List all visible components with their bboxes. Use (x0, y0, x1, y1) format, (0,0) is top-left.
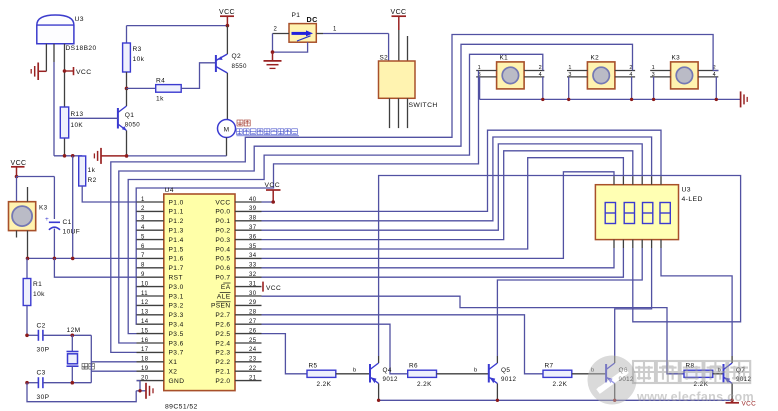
wire P0.7 to LED pin2 bottom (262, 248, 624, 277)
wire Q5 collector to LED digit2 (497, 248, 642, 356)
svg-text:P0.4: P0.4 (215, 246, 230, 253)
svg-text:13: 13 (141, 310, 149, 316)
wire motor to Q1 emitter rail (125, 154, 227, 158)
svg-text:P3.7: P3.7 (169, 350, 184, 357)
svg-text:36: 36 (249, 234, 257, 240)
svg-text:1: 1 (568, 65, 571, 71)
svg-text:VCC: VCC (265, 182, 281, 189)
wire VCC top rail (127, 26, 228, 43)
svg-text:35: 35 (249, 244, 257, 250)
svg-text:31: 31 (249, 281, 257, 287)
chip pins right 40-21 (211, 197, 262, 385)
wire net K3 to P3.7 (111, 35, 719, 353)
svg-text:P2.5: P2.5 (215, 331, 230, 338)
switch S2 (379, 55, 438, 110)
ground P1 (264, 52, 282, 68)
wire Q7 collector to LED digit4 (661, 248, 732, 356)
svg-text:P1.2: P1.2 (169, 218, 184, 225)
svg-text:C3: C3 (37, 370, 46, 377)
svg-text:P3.4: P3.4 (169, 322, 184, 329)
resistor R2 (79, 156, 137, 202)
svg-text:1: 1 (652, 65, 655, 71)
svg-text:40: 40 (249, 197, 257, 203)
label fan chinese (237, 120, 250, 126)
label crystal chinese (82, 364, 94, 370)
svg-text:R7: R7 (545, 363, 554, 370)
svg-text:18: 18 (141, 357, 149, 363)
svg-text:29: 29 (249, 300, 257, 306)
svg-text:2.2K: 2.2K (317, 381, 332, 388)
wire sensor data leg (53, 44, 55, 156)
svg-text:P0.0: P0.0 (215, 209, 230, 216)
svg-text:1: 1 (333, 27, 337, 33)
watermark text (633, 361, 754, 404)
wire button ground rail (480, 98, 741, 101)
svg-text:1k: 1k (156, 96, 164, 103)
wire crystal to X1 X2 (91, 335, 136, 382)
svg-text:www.elecfans.com: www.elecfans.com (636, 390, 754, 404)
power VCC S2 (391, 9, 407, 61)
svg-text:Q1: Q1 (125, 112, 135, 119)
display U3 4-LED (595, 185, 702, 240)
svg-text:X1: X1 (169, 359, 178, 366)
capacitor C2 30P (25, 323, 91, 354)
svg-text:DC: DC (307, 15, 318, 24)
svg-text:GND: GND (169, 378, 185, 385)
svg-text:8050: 8050 (125, 122, 141, 129)
wire S2 pin3 stub top (407, 36, 409, 61)
svg-text:2.2K: 2.2K (553, 381, 568, 388)
resistor R5 (307, 363, 370, 389)
svg-text:89C51/52: 89C51/52 (165, 404, 198, 411)
svg-text:15: 15 (141, 328, 149, 334)
svg-text:P3.5: P3.5 (169, 331, 184, 338)
capacitor C3 30P (25, 370, 91, 402)
svg-text:16: 16 (141, 338, 149, 344)
ground buttons right (741, 91, 748, 107)
wire K3 gnd loop (654, 77, 717, 100)
svg-text:10UF: 10UF (63, 229, 81, 236)
chip pins left 1-20 (137, 197, 185, 385)
transistor Q2 8550 (216, 26, 247, 120)
wire emitter VCC rail (377, 399, 734, 402)
svg-text:7: 7 (141, 253, 145, 259)
svg-text:SWITCH: SWITCH (409, 102, 438, 109)
wire sensor VCC leg (64, 44, 66, 107)
watermark logo (588, 356, 637, 405)
svg-text:K2: K2 (591, 55, 600, 62)
wire net K1 to P3.5 (128, 54, 543, 333)
svg-text:4: 4 (713, 72, 716, 78)
svg-text:38: 38 (249, 216, 257, 222)
svg-text:P2.4: P2.4 (215, 340, 230, 347)
wire C1 to RST pin9 (54, 258, 136, 277)
svg-text:P3.2: P3.2 (169, 303, 184, 310)
svg-text:12M: 12M (67, 327, 81, 334)
wire P1 pin2 to ground (271, 27, 308, 54)
svg-text:P3.1: P3.1 (169, 293, 184, 300)
svg-text:U3: U3 (75, 16, 85, 23)
svg-text:24: 24 (249, 347, 257, 353)
sensor U3 DS18B20 (37, 15, 97, 52)
svg-text:b: b (353, 368, 357, 374)
svg-text:P0.7: P0.7 (215, 275, 230, 282)
svg-text:P1.0: P1.0 (169, 199, 184, 206)
resistor R1 (23, 258, 45, 335)
wire P0.6 to LED pin1 bottom (262, 248, 615, 268)
button K3 (650, 55, 718, 89)
wire P0.0 to LED (262, 130, 662, 211)
svg-text:P2.1: P2.1 (215, 369, 230, 376)
svg-text:P3.0: P3.0 (169, 284, 184, 291)
svg-text:19: 19 (141, 366, 149, 372)
svg-text:11: 11 (141, 291, 148, 297)
svg-text:4: 4 (539, 72, 542, 78)
svg-text:4: 4 (141, 225, 145, 231)
svg-text:1: 1 (478, 65, 481, 71)
wire P0.1 to LED (262, 137, 652, 221)
svg-text:K3: K3 (39, 205, 48, 212)
transistor Q7 9012 (724, 356, 752, 400)
ground sensor (31, 63, 38, 81)
wire net K1 pin1 to P3.4 (136, 71, 478, 325)
ground Q1 emitter (94, 148, 126, 164)
wire P0.4 to LED (262, 158, 624, 249)
svg-text:C2: C2 (37, 323, 46, 330)
svg-text:R13: R13 (71, 111, 84, 118)
svg-text:P2.6: P2.6 (215, 322, 230, 329)
wire P0.3 to LED (262, 151, 633, 240)
svg-text:b: b (474, 368, 478, 374)
transistor Q5 9012 (489, 356, 517, 400)
wire P0.2 to LED (262, 144, 643, 230)
crystal 12M (67, 327, 81, 383)
svg-text:26: 26 (249, 328, 257, 334)
wire S2 bottom stubs (390, 98, 408, 128)
svg-text:P3.6: P3.6 (169, 340, 184, 347)
svg-text:Q4: Q4 (383, 367, 392, 374)
wire Q6 collector to LED digit3 (615, 248, 652, 356)
led pin stubs (614, 176, 661, 248)
svg-text:1k: 1k (88, 167, 96, 174)
resistor R13 (60, 107, 83, 156)
svg-text:30P: 30P (37, 394, 50, 401)
button K3 left (9, 187, 48, 258)
wire bottom left rail (27, 383, 136, 402)
svg-text:33: 33 (249, 263, 257, 269)
svg-text:U4: U4 (165, 187, 175, 194)
svg-text:10k: 10k (133, 56, 145, 63)
button K1 (476, 55, 544, 89)
svg-text:10k: 10k (33, 291, 45, 298)
svg-text:10K: 10K (71, 122, 84, 129)
svg-text:5: 5 (141, 234, 145, 240)
wire P2.7 to R6 (262, 324, 408, 374)
svg-text:PSEN: PSEN (211, 303, 231, 310)
svg-text:P2.2: P2.2 (215, 359, 230, 366)
svg-text:30P: 30P (37, 347, 50, 354)
svg-text:39: 39 (249, 206, 257, 212)
svg-text:17: 17 (141, 347, 149, 353)
transistor Q4 9012 (370, 356, 398, 400)
svg-text:P3.3: P3.3 (169, 312, 184, 319)
connector P1 DC (289, 12, 318, 42)
resistor R7 (543, 363, 606, 389)
resistor R6 (408, 363, 489, 389)
wire VCC to C1 and button (17, 177, 55, 220)
svg-text:R4: R4 (156, 78, 165, 85)
motor M fan (218, 120, 236, 156)
power VCC bottom right (726, 400, 757, 407)
power VCC pin40 (262, 182, 281, 204)
svg-text:P1.6: P1.6 (169, 256, 184, 263)
svg-text:P0.3: P0.3 (215, 237, 230, 244)
svg-text:21: 21 (249, 375, 257, 381)
svg-text:R5: R5 (309, 363, 318, 370)
svg-text:VCC: VCC (391, 9, 407, 16)
svg-text:X2: X2 (169, 369, 178, 376)
svg-text:R1: R1 (33, 281, 42, 288)
svg-text:22: 22 (249, 366, 257, 372)
svg-text:R3: R3 (133, 46, 142, 53)
svg-text:8550: 8550 (232, 63, 248, 70)
node R3-R4-Q1 (125, 87, 129, 91)
svg-text:25: 25 (249, 338, 257, 344)
svg-text:P0.2: P0.2 (215, 228, 230, 235)
svg-text:VCC: VCC (76, 69, 92, 76)
svg-text:3: 3 (141, 216, 145, 222)
svg-text:S2: S2 (380, 55, 389, 62)
power VCC pin31 EA (263, 282, 281, 292)
svg-text:R6: R6 (409, 363, 418, 370)
wire sensor data junction rail (54, 154, 82, 158)
svg-text:P2.7: P2.7 (215, 312, 230, 319)
resistor R8 (684, 363, 724, 389)
svg-text:P2.0: P2.0 (215, 378, 230, 385)
power VCC sensor (63, 67, 92, 76)
svg-text:12: 12 (141, 300, 149, 306)
svg-text:10: 10 (141, 281, 149, 287)
svg-text:9012: 9012 (501, 376, 517, 383)
transistor Q6 9012 (606, 356, 634, 400)
svg-text:P0.6: P0.6 (215, 265, 230, 272)
power VCC top center (219, 9, 235, 27)
svg-text:P1: P1 (292, 12, 301, 19)
svg-text:R2: R2 (88, 177, 97, 184)
svg-text:9: 9 (141, 272, 145, 278)
svg-text:37: 37 (249, 225, 257, 231)
svg-text:Q5: Q5 (501, 367, 510, 374)
ground chip GND (146, 383, 153, 399)
svg-text:P0.5: P0.5 (215, 256, 230, 263)
wire GND pin20 to ground (136, 381, 146, 393)
wire K1 gnd loop (480, 77, 543, 100)
svg-text:32: 32 (249, 272, 257, 278)
svg-text:Q2: Q2 (232, 53, 242, 60)
svg-text:U3: U3 (682, 187, 692, 194)
mcu U4 89C51/52 (164, 187, 235, 411)
power VCC left (11, 160, 27, 178)
wire P1 pin1 to S2 (316, 27, 388, 62)
wire data to P1.6 (72, 156, 74, 259)
svg-text:+: + (45, 216, 49, 223)
capacitor C1 10uF (45, 216, 80, 258)
svg-text:P1.1: P1.1 (169, 209, 184, 216)
svg-text:M: M (224, 126, 230, 133)
wire K2 gnd loop (569, 77, 632, 100)
svg-text:EA: EA (221, 284, 231, 291)
label fan polarity chinese (237, 129, 300, 136)
svg-text:27: 27 (249, 319, 257, 325)
svg-text:VCC: VCC (219, 9, 235, 16)
svg-text:28: 28 (249, 310, 257, 316)
svg-text:20: 20 (141, 375, 149, 381)
svg-text:6: 6 (141, 244, 145, 250)
svg-text:9012: 9012 (383, 376, 399, 383)
wire sensor leg1 to ground (38, 44, 46, 72)
svg-text:2: 2 (539, 65, 542, 71)
svg-text:14: 14 (141, 319, 149, 325)
svg-text:2: 2 (141, 206, 145, 212)
wire net K2 to P3.6 (119, 44, 633, 343)
svg-text:ALE: ALE (217, 293, 231, 300)
svg-text:P0.1: P0.1 (215, 218, 230, 225)
svg-text:P1.7: P1.7 (169, 265, 184, 272)
svg-text:P1.3: P1.3 (169, 228, 184, 235)
button K2 (567, 55, 635, 89)
resistor R4 (127, 63, 216, 103)
svg-text:P1.5: P1.5 (169, 246, 184, 253)
svg-text:2.2K: 2.2K (417, 381, 432, 388)
svg-text:C1: C1 (63, 219, 72, 226)
svg-text:VCC: VCC (266, 285, 281, 292)
svg-text:23: 23 (249, 357, 257, 363)
wire Q4 collector to LED digit1 (379, 176, 741, 357)
svg-text:30: 30 (249, 291, 257, 297)
transistor Q1 8050 (69, 88, 140, 155)
svg-text:2: 2 (274, 27, 278, 33)
wire reset junction to P1.6 pin7 (26, 257, 137, 261)
wire ALE row to R8 (262, 296, 685, 374)
svg-text:P2.3: P2.3 (215, 350, 230, 357)
svg-text:4-LED: 4-LED (682, 196, 703, 203)
svg-text:1: 1 (141, 197, 145, 203)
svg-text:K1: K1 (500, 55, 509, 62)
led digits (605, 203, 670, 224)
svg-text:K3: K3 (672, 55, 681, 62)
wire P0.5 to LED (262, 172, 615, 259)
svg-text:VCC: VCC (215, 199, 230, 206)
resistor R3 (123, 43, 145, 88)
svg-text:RST: RST (169, 275, 183, 282)
svg-text:P1.4: P1.4 (169, 237, 184, 244)
wire PSEN row to R7 (262, 315, 544, 374)
svg-text:8: 8 (141, 263, 145, 269)
svg-text:DS18B20: DS18B20 (66, 45, 97, 52)
svg-text:34: 34 (249, 253, 257, 259)
wire P2.6 to R5 (262, 334, 308, 374)
